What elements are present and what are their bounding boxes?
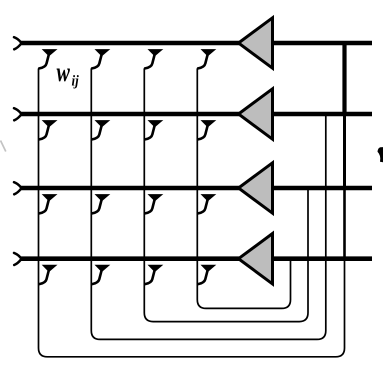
- svg-text:w: w: [57, 58, 70, 88]
- svg-text:ij: ij: [72, 74, 79, 90]
